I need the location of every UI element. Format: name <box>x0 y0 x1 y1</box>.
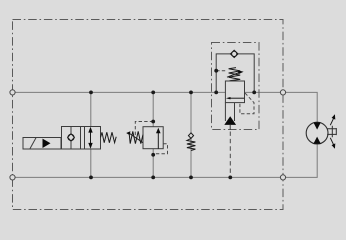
node lower bus x=153 <box>151 176 155 180</box>
reducing valve assembly enclosure (dash-dot) <box>212 43 260 130</box>
valve V1 return spring <box>101 132 117 142</box>
port circle lower right <box>280 175 285 180</box>
valve V1 left position check symbol <box>70 127 72 150</box>
bypass check valve ball <box>232 51 237 56</box>
enclosure border (power unit boundary, dash-dot) <box>13 20 284 210</box>
node upper bus x=191 <box>189 91 193 95</box>
check valve CV1 poppet (diamond) <box>188 133 193 139</box>
solenoid actuator arrow <box>43 139 51 148</box>
reducing valve internal arrow <box>229 97 245 99</box>
valve V1 body (2-position) <box>62 127 101 150</box>
valve V1 right position flow path <box>90 132 92 144</box>
upper bus wire P <box>15 92 317 122</box>
reducing valve drain stem <box>229 125 231 130</box>
check valve CV1 spring <box>187 138 196 150</box>
relief valve V2 pilot line bottom (dashed) <box>153 144 167 154</box>
wire check valve vertical <box>190 92 192 177</box>
motor M1 upper triangle <box>313 122 320 129</box>
reducing valve spring <box>229 68 241 81</box>
node bypass pilot <box>214 69 218 73</box>
reducing valve seat triangle <box>224 116 236 125</box>
hydraulic motor M1 circle <box>306 122 328 144</box>
wire solenoid valve vertical <box>90 92 92 177</box>
node upper bus x=254 <box>252 91 256 95</box>
reducing valve outlet lines <box>225 103 234 121</box>
motor M1 lower triangle <box>313 137 320 144</box>
bypass loop wire <box>216 54 254 93</box>
wire relief valve vertical <box>152 92 154 177</box>
reducing valve adjustment arrow <box>227 73 239 78</box>
drain wire dashed to tank bus <box>229 132 231 177</box>
relief valve V2 pilot line top (dashed) <box>135 122 153 136</box>
node upper bus x=91 <box>89 91 93 95</box>
node upper bus x=216 <box>214 91 218 95</box>
node upper bus x=153 <box>151 91 155 95</box>
port circle upper left <box>10 90 15 95</box>
relief valve V2 adjustment arrow <box>130 134 143 143</box>
port circle lower left <box>10 175 15 180</box>
relief valve V2 internal arrow <box>157 132 159 149</box>
relief valve V2 body <box>143 127 163 149</box>
motor M1 shaft <box>327 126 336 137</box>
port circle upper right <box>280 90 285 95</box>
reducing valve body <box>225 81 244 103</box>
relief valve V2 spring <box>129 131 143 143</box>
node lower bus x=230 <box>228 176 232 180</box>
motor M1 rotation arrow up <box>330 118 333 125</box>
motor M1 rotation arrow down <box>330 138 333 145</box>
reducing valve pilot dashed loop <box>240 93 254 114</box>
node relief valve bottom <box>151 153 155 157</box>
lower bus wire T <box>15 144 317 177</box>
node lower bus x=191 <box>189 176 193 180</box>
pilot dashed to spring <box>216 70 227 72</box>
bypass check valve diamond <box>230 50 238 57</box>
node lower bus x=91 <box>89 176 93 180</box>
solenoid actuator box <box>23 138 61 150</box>
node relief valve top <box>151 120 155 124</box>
